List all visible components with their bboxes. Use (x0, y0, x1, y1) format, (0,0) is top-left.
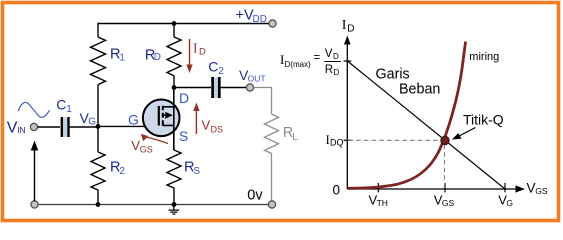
svg-text:TH: TH (377, 198, 388, 208)
svg-text:D: D (347, 24, 354, 35)
tick VG (504, 183, 506, 192)
svg-text:S: S (193, 166, 200, 177)
terminal VIN (30, 123, 37, 130)
svg-text:S: S (179, 128, 188, 144)
svg-text:+V: +V (236, 8, 254, 24)
dashed line VGS vertical (444, 145, 446, 189)
svg-text:=: = (314, 52, 321, 64)
terminal VOUT (246, 84, 253, 91)
wire: top rail +VDD (98, 23, 269, 25)
wire: R1 bottom lead (97, 85, 99, 127)
gate plate (158, 106, 160, 126)
arrow VDS (red, up) (195, 110, 197, 134)
node: bottom rail / R2 (96, 202, 101, 207)
svg-text:V: V (325, 48, 333, 60)
capacitor C1 (63, 118, 68, 138)
svg-text:DD: DD (253, 14, 267, 25)
resistor R2 (91, 152, 105, 190)
wire: drain node to C2 (174, 87, 211, 89)
arrow VGS (curved, red) (147, 137, 168, 143)
channel dashes (162, 106, 164, 126)
resistor RD (167, 37, 181, 76)
dashed line IDQ horizontal (349, 139, 442, 141)
wire: RD top lead (173, 24, 175, 38)
arrow ID (drain current) (189, 39, 191, 66)
svg-text:2: 2 (119, 166, 125, 177)
wire: C1 to VG node (70, 126, 99, 128)
svg-text:GS: GS (535, 186, 548, 196)
source stub and lead (163, 107, 174, 150)
tick IDQ (344, 139, 352, 141)
wire: RD bottom lead to drain node (173, 76, 175, 88)
svg-text:V: V (527, 180, 536, 195)
tick IDmax (344, 60, 352, 62)
svg-text:0v: 0v (247, 188, 263, 204)
resistor R1 (91, 37, 106, 85)
resistor RS (167, 150, 181, 188)
svg-text:R: R (325, 64, 333, 76)
ground (169, 205, 180, 215)
svg-text:G: G (128, 112, 139, 128)
node VG (96, 124, 101, 129)
svg-text:V: V (202, 118, 211, 133)
load line (garis beban) (347, 61, 505, 189)
wire: VOUT to RL branch (gray) (254, 88, 272, 115)
node: bottom rail / RS (172, 202, 177, 207)
node: top rail / RD junction (172, 21, 177, 26)
svg-text:Beban: Beban (399, 81, 440, 97)
svg-text:1: 1 (66, 104, 72, 115)
body stub with arrow (163, 114, 166, 116)
svg-text:D: D (199, 46, 206, 57)
svg-text:D: D (179, 90, 189, 106)
arrow to Q point (458, 128, 476, 137)
svg-text:1: 1 (119, 53, 125, 64)
svg-text:I: I (193, 40, 198, 55)
wire: R2 bottom lead (97, 190, 99, 205)
svg-text:I: I (342, 18, 347, 33)
transistor Q1 MOSFET body (143, 100, 180, 137)
svg-text:DQ: DQ (330, 138, 344, 148)
tick VGS (444, 183, 446, 192)
sine wave symbol (18, 102, 49, 117)
arrow VIN input (up) (34, 149, 36, 201)
terminal 0v (268, 201, 275, 208)
wire: RL to 0v terminal (gray) (271, 153, 273, 201)
svg-text:0: 0 (333, 183, 341, 198)
svg-text:GS: GS (442, 198, 455, 208)
svg-text:V: V (7, 120, 18, 137)
capacitor C2 (214, 78, 218, 99)
svg-text:D: D (333, 52, 339, 61)
node: drain junction (172, 85, 177, 90)
svg-text:Titik-Q: Titik-Q (463, 112, 504, 128)
axis Y (ID) (346, 42, 348, 189)
svg-text:GS: GS (140, 145, 153, 155)
transfer curve (348, 42, 466, 189)
svg-text:D(max): D(max) (285, 60, 312, 69)
wire: gate wire VG to MOSFET (98, 125, 159, 127)
tick VTH (377, 183, 379, 192)
svg-text:D: D (334, 68, 340, 77)
svg-text:IN: IN (17, 125, 26, 135)
wire: bottom rail (38, 204, 269, 206)
svg-text:Garis: Garis (376, 67, 410, 83)
svg-text:C: C (56, 97, 66, 113)
svg-text:OUT: OUT (248, 73, 266, 83)
drain stub and lead (163, 88, 174, 107)
wire: RS bottom lead (173, 188, 175, 205)
terminal +VDD (269, 20, 276, 27)
svg-text:G: G (88, 116, 96, 127)
resistor RL (gray) (265, 114, 279, 153)
wire: R1 top lead (97, 23, 99, 37)
svg-text:G: G (506, 198, 513, 208)
terminal bottom-left (31, 201, 38, 208)
wire: C2 to VOUT terminal (220, 87, 247, 89)
svg-text:2: 2 (218, 66, 224, 77)
svg-text:DS: DS (211, 125, 224, 135)
svg-text:miring: miring (469, 51, 499, 63)
wire: R2 top lead (97, 126, 99, 152)
point Q (441, 136, 449, 144)
axis X (VGS) (347, 188, 516, 190)
wire: VIN terminal to C1 (38, 126, 60, 128)
svg-text:L: L (292, 132, 298, 143)
svg-text:C: C (208, 58, 218, 74)
svg-text:D: D (154, 52, 161, 63)
